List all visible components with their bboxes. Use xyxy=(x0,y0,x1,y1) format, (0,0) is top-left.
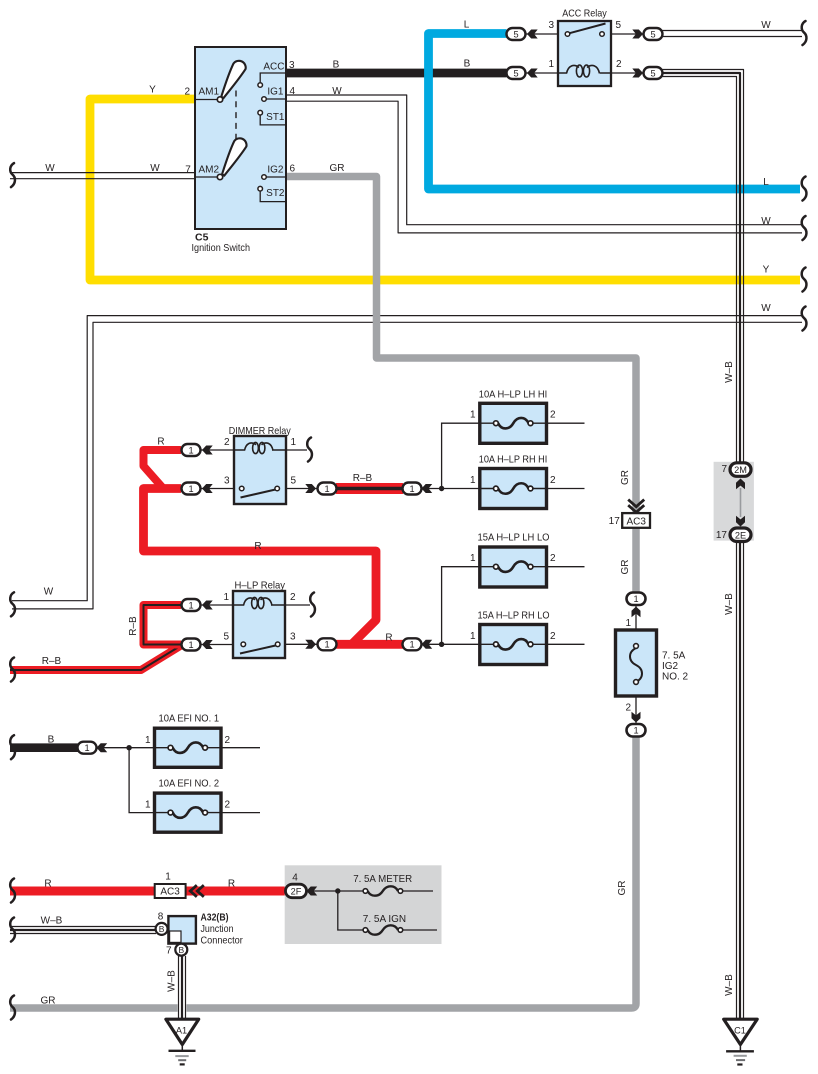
wire: ACC relay pin1 to oval xyxy=(525,72,558,74)
fuse 7.5A IG2 NO.2 xyxy=(616,630,657,696)
svg-text:R: R xyxy=(385,633,392,644)
wire W (left edge to AM2) xyxy=(10,173,195,179)
oval 1 (H-LP pin5) xyxy=(182,639,213,651)
shaded area meter/ign fuse block xyxy=(285,865,442,944)
svg-text:W: W xyxy=(44,587,54,598)
wire W-B (left edge to junction connector) xyxy=(10,927,156,934)
svg-text:1: 1 xyxy=(145,800,151,811)
H-LP relay coil xyxy=(233,597,285,608)
svg-text:Junction: Junction xyxy=(201,923,234,935)
DIMMER relay box xyxy=(234,436,286,504)
svg-text:R: R xyxy=(44,879,51,890)
svg-text:7: 7 xyxy=(185,164,191,175)
svg-text:W–B: W–B xyxy=(41,915,63,926)
oval 1 (H-LP pin3 left of pair) xyxy=(305,638,336,650)
svg-text:15A H–LP RH LO: 15A H–LP RH LO xyxy=(478,610,550,622)
wire: H-LP relay pin3 to oval pair xyxy=(285,643,317,645)
oval 5 (ACC relay pin5 right) xyxy=(632,28,662,40)
svg-text:1: 1 xyxy=(324,484,329,494)
oval 5 (ACC relay pin2 right) xyxy=(632,67,662,79)
svg-text:GR: GR xyxy=(41,996,56,1007)
break left B xyxy=(10,735,15,759)
wire: 10A EFI NO.2 pin2 stub xyxy=(221,812,260,814)
svg-text:W: W xyxy=(761,216,771,227)
ignition switch wiper AM1 xyxy=(217,61,245,102)
svg-text:AC3: AC3 xyxy=(160,887,180,898)
svg-text:2: 2 xyxy=(550,631,556,642)
oval 5 (ACC relay pin3 left) xyxy=(507,28,538,40)
svg-text:1: 1 xyxy=(223,592,229,603)
svg-text:2: 2 xyxy=(550,475,556,486)
wire R (dimmer relay upper branch) xyxy=(144,450,182,487)
wire: 10A H-LP RH HI fuse pin2 stub xyxy=(547,488,585,490)
svg-text:R–B: R–B xyxy=(128,616,139,636)
svg-text:1: 1 xyxy=(84,743,89,753)
oval 1 (H-LP pin1) xyxy=(182,599,213,611)
svg-text:W–B: W–B xyxy=(724,361,735,383)
svg-text:1: 1 xyxy=(291,437,297,448)
svg-text:1: 1 xyxy=(188,484,193,494)
wire W-B (2E down to C1 ground) xyxy=(737,541,744,1019)
svg-text:Y: Y xyxy=(763,265,770,276)
svg-text:W–B: W–B xyxy=(724,974,735,996)
svg-text:5: 5 xyxy=(650,29,655,39)
svg-text:ST2: ST2 xyxy=(266,188,285,199)
svg-text:1: 1 xyxy=(470,410,476,421)
svg-text:10A EFI NO. 2: 10A EFI NO. 2 xyxy=(159,777,220,789)
shaded area 2M/2E connector xyxy=(714,462,754,541)
svg-text:H–LP Relay: H–LP Relay xyxy=(235,580,286,592)
oval 1 (H-LP pin3 right of pair) xyxy=(403,638,433,650)
svg-text:5: 5 xyxy=(291,475,297,486)
oval 2F (meter) xyxy=(286,884,318,898)
wire R-B (between ovals at dimmer pin5) xyxy=(336,483,403,494)
wire: 15A H-LP RH LO pin2 stub xyxy=(547,643,585,645)
svg-text:GR: GR xyxy=(620,470,631,485)
svg-text:W: W xyxy=(761,303,771,314)
wire W (ACC relay pin5 to right edge) xyxy=(662,31,802,37)
svg-text:7. 5A METER: 7. 5A METER xyxy=(353,873,412,885)
junction connector A32(B) box xyxy=(168,916,196,944)
wire R (AC3 to 2F oval) xyxy=(186,887,287,896)
svg-text:7: 7 xyxy=(166,946,172,957)
wire GR (IG2 to down and across) xyxy=(286,177,636,593)
svg-text:A1: A1 xyxy=(176,1026,187,1036)
wire: IG2 fuse top oval to fuse xyxy=(635,604,637,646)
break left R-B xyxy=(10,658,15,682)
wire: 10A EFI NO.1 pin2 stub xyxy=(221,747,260,749)
fuse 15A H-LP RH LO xyxy=(480,625,547,665)
wire W (left edge loop up to right edge) xyxy=(12,316,802,609)
svg-text:5: 5 xyxy=(513,68,518,78)
fuse 7.5A IGN symbol xyxy=(363,925,403,934)
oval 2E xyxy=(730,516,751,542)
svg-text:W–B: W–B xyxy=(724,593,735,615)
connector AC3 (bottom, on R) xyxy=(155,884,204,898)
svg-text:10A H–LP LH HI: 10A H–LP LH HI xyxy=(479,389,548,401)
svg-text:2: 2 xyxy=(550,553,556,564)
svg-text:ST1: ST1 xyxy=(266,112,285,123)
svg-text:2: 2 xyxy=(225,800,231,811)
svg-text:17: 17 xyxy=(609,516,621,527)
ignition switch AM2 stub xyxy=(195,176,217,178)
break left W (loop) xyxy=(10,592,15,616)
break right L xyxy=(802,177,807,201)
svg-text:1: 1 xyxy=(633,594,638,604)
DIMMER relay coil xyxy=(234,442,286,453)
wire: 2F oval to meter junction xyxy=(306,890,338,892)
svg-text:2E: 2E xyxy=(735,530,746,540)
svg-text:DIMMER Relay: DIMMER Relay xyxy=(229,425,292,437)
break right W (IG1) xyxy=(802,216,807,240)
wire: oval pair to junction, H-LP LO fuses xyxy=(421,567,480,645)
svg-text:1: 1 xyxy=(188,445,193,455)
svg-text:10A EFI NO. 1: 10A EFI NO. 1 xyxy=(159,713,220,725)
break dimmer pin1 stub xyxy=(307,438,312,462)
fuse 10A H-LP LH HI xyxy=(480,403,547,443)
svg-text:6: 6 xyxy=(290,164,296,175)
svg-text:1: 1 xyxy=(324,640,329,650)
svg-text:1: 1 xyxy=(188,600,193,610)
svg-text:1: 1 xyxy=(470,475,476,486)
ACC relay switch xyxy=(570,24,606,34)
oval 1 (dimmer pin5 left of pair) xyxy=(305,483,336,495)
break left GR xyxy=(10,996,15,1020)
wire Y (yellow, AM1 to right edge) xyxy=(90,99,800,280)
redraw meter thin lines over shade xyxy=(306,891,437,930)
svg-text:B: B xyxy=(178,945,184,955)
oval 1 (IG2 fuse top) xyxy=(627,593,646,618)
oval 1 (dimmer pin3) xyxy=(182,483,213,495)
fuse 15A H-LP LH LO xyxy=(480,547,547,587)
oval 1 (dimmer pin2) xyxy=(182,444,213,456)
svg-text:GR: GR xyxy=(617,881,628,896)
svg-text:2M: 2M xyxy=(734,465,747,475)
svg-text:Connector: Connector xyxy=(201,934,244,946)
ignition switch ACC contact xyxy=(260,73,286,82)
svg-text:2: 2 xyxy=(225,735,231,746)
H-LP relay switch xyxy=(240,646,276,654)
svg-text:7. 5A: 7. 5A xyxy=(662,651,686,662)
svg-text:W: W xyxy=(45,163,55,174)
break right Y xyxy=(802,268,807,292)
wire W-B (junction connector down to A1 ground) xyxy=(178,956,187,1020)
wire: H-LP relay pin5 to oval xyxy=(200,644,233,646)
fuse 7.5A METER symbol xyxy=(363,886,403,895)
break left W (AM2) xyxy=(10,163,15,187)
svg-text:B: B xyxy=(48,735,55,746)
wire W-B (ACC relay pin2 down right side, upper) xyxy=(662,70,744,464)
svg-text:R: R xyxy=(228,879,235,890)
junction dot H-LP HI xyxy=(439,486,444,491)
ignition switch C5 box xyxy=(195,47,286,229)
svg-text:C1: C1 xyxy=(734,1026,746,1036)
svg-text:W–B: W–B xyxy=(167,970,178,992)
junction dot H-LP LO xyxy=(439,642,444,647)
svg-text:R–B: R–B xyxy=(353,473,373,484)
svg-text:W: W xyxy=(761,20,771,31)
wire GR (below IG2 fuse down, left to edge) xyxy=(10,736,636,1008)
wire: ACC relay pin2 to oval xyxy=(611,72,644,74)
fuse 10A EFI NO.1 xyxy=(155,728,222,767)
ignition switch IG1 contact xyxy=(266,98,286,100)
ignition switch dashed link xyxy=(235,91,237,142)
ground A1 xyxy=(166,1019,199,1064)
svg-text:IG2: IG2 xyxy=(662,661,679,672)
svg-text:10A H–LP RH HI: 10A H–LP RH HI xyxy=(479,454,548,466)
svg-text:3: 3 xyxy=(290,632,296,643)
svg-text:5: 5 xyxy=(223,632,229,643)
svg-text:GR: GR xyxy=(330,163,345,174)
svg-text:2: 2 xyxy=(224,437,230,448)
link 2M to 2E xyxy=(740,488,742,517)
svg-text:IG2: IG2 xyxy=(267,165,284,176)
svg-text:ACC Relay: ACC Relay xyxy=(562,8,607,20)
svg-text:2: 2 xyxy=(290,592,296,603)
svg-text:R: R xyxy=(254,541,261,552)
svg-text:3: 3 xyxy=(289,60,295,71)
wire: 15A H-LP LH LO pin2 stub xyxy=(547,566,585,568)
wire R-B (H-LP relay U loop) xyxy=(144,605,182,645)
wire L (blue, ACC relay pin3 to right edge) xyxy=(429,34,801,190)
svg-text:1: 1 xyxy=(145,735,151,746)
junction dot meter xyxy=(335,888,340,893)
svg-text:3: 3 xyxy=(224,475,230,486)
wire: H-LP relay pin2 stub xyxy=(285,604,310,606)
wire: dimmer pin2 to oval xyxy=(200,449,234,451)
H-LP relay box xyxy=(233,591,285,658)
wire: EFI oval to junction to fuse pins xyxy=(96,748,155,813)
oval 1 (EFI) xyxy=(78,742,108,754)
svg-text:1: 1 xyxy=(188,640,193,650)
wire: H-LP relay pin1 to oval xyxy=(200,604,233,606)
svg-text:R: R xyxy=(157,437,164,448)
wire B (left edge to EFI fuses) xyxy=(10,743,78,752)
svg-text:2: 2 xyxy=(625,703,631,714)
break H-LP pin2 stub xyxy=(310,593,315,617)
wire: dimmer pin1 stub xyxy=(286,449,307,451)
svg-text:L: L xyxy=(763,177,769,188)
wire: dimmer pin3 to oval xyxy=(200,488,234,490)
oval 1 (dimmer pin5 right of pair) xyxy=(403,483,433,495)
svg-text:4: 4 xyxy=(290,86,296,97)
connector circle B (pin 8) xyxy=(156,923,168,935)
svg-text:5: 5 xyxy=(650,68,655,78)
svg-text:2: 2 xyxy=(184,86,190,97)
wire R (dimmer trunk to H-LP row) xyxy=(144,489,377,644)
break left W-B xyxy=(10,918,15,942)
connector AC3 (mid, on GR) xyxy=(622,500,650,528)
ignition switch wiper AM2 xyxy=(217,138,246,179)
oval 1 (IG2 fuse bottom) xyxy=(627,712,646,737)
svg-text:B: B xyxy=(333,60,340,71)
svg-text:AM2: AM2 xyxy=(199,165,220,176)
svg-text:15A H–LP LH LO: 15A H–LP LH LO xyxy=(478,532,550,544)
oval 5 (ACC relay pin1 left) xyxy=(507,67,538,79)
ignition switch ST2 contact xyxy=(260,191,286,202)
DIMMER relay switch xyxy=(241,490,276,498)
svg-text:2: 2 xyxy=(550,410,556,421)
svg-text:R–B: R–B xyxy=(42,656,62,667)
svg-text:W: W xyxy=(332,86,342,97)
wire R-B (left edge diagonal into H-LP loop) xyxy=(10,646,181,671)
ignition switch ST1 contact xyxy=(260,115,286,125)
svg-text:1: 1 xyxy=(409,640,414,650)
ACC relay box xyxy=(558,21,611,86)
wire: ACC relay pin5 to oval xyxy=(611,33,644,35)
svg-text:4: 4 xyxy=(292,873,298,884)
wire: IGN fuse branch xyxy=(338,891,437,930)
svg-text:A32(B): A32(B) xyxy=(201,912,229,924)
ignition switch AM1 stub xyxy=(195,99,217,101)
svg-text:1: 1 xyxy=(633,726,638,736)
svg-text:1: 1 xyxy=(548,59,554,70)
svg-text:IG1: IG1 xyxy=(267,87,284,98)
svg-text:NO. 2: NO. 2 xyxy=(662,672,689,683)
svg-text:AC3: AC3 xyxy=(626,516,646,527)
wire R (between ovals at H-LP pin3) xyxy=(336,640,403,649)
wire: meter fuse line xyxy=(338,890,437,892)
wire W (IG1 dog-leg to right edge) xyxy=(286,95,802,233)
fuse 10A H-LP RH HI xyxy=(480,469,547,509)
break right W (loop) xyxy=(802,307,807,331)
connector circle B (pin 7) xyxy=(175,944,187,956)
svg-text:3: 3 xyxy=(548,20,554,31)
break right W (ACC relay) xyxy=(802,21,807,45)
svg-text:W: W xyxy=(150,163,160,174)
svg-text:B: B xyxy=(159,924,165,934)
svg-text:1: 1 xyxy=(470,631,476,642)
svg-text:5: 5 xyxy=(616,20,622,31)
ACC relay coil xyxy=(558,65,611,77)
svg-text:Ignition Switch: Ignition Switch xyxy=(192,242,251,254)
svg-text:1: 1 xyxy=(470,553,476,564)
svg-text:1: 1 xyxy=(165,872,171,883)
svg-text:1: 1 xyxy=(625,618,631,629)
wire: 10A H-LP LH HI fuse row xyxy=(480,422,585,424)
ground C1 xyxy=(724,1019,758,1064)
wire: oval pair to junction, H-LP HI fuses xyxy=(421,423,480,488)
svg-text:1: 1 xyxy=(409,484,414,494)
svg-text:GR: GR xyxy=(620,560,631,575)
ignition switch IG2 contact xyxy=(266,176,286,178)
svg-text:8: 8 xyxy=(158,912,164,923)
svg-text:Y: Y xyxy=(149,85,156,96)
svg-text:L: L xyxy=(464,20,470,31)
wire: dimmer pin5 to oval pair xyxy=(286,488,317,490)
wire B (ignition ACC to ACC relay) xyxy=(286,69,507,78)
svg-text:7: 7 xyxy=(721,464,727,475)
svg-text:B: B xyxy=(464,59,471,70)
break left R xyxy=(10,879,15,903)
svg-text:5: 5 xyxy=(513,29,518,39)
wire: ACC relay pin3 to oval xyxy=(525,33,558,35)
svg-text:2: 2 xyxy=(616,59,622,70)
oval 2M xyxy=(730,463,751,489)
wire: IG2 fuse bottom to oval xyxy=(635,682,637,724)
svg-text:7. 5A IGN: 7. 5A IGN xyxy=(363,913,406,925)
svg-text:ACC: ACC xyxy=(263,62,284,73)
fuse 10A EFI NO.2 xyxy=(155,793,222,832)
wire R (left edge to AC3 bottom) xyxy=(10,887,155,896)
junction dot EFI xyxy=(126,745,131,750)
svg-text:AM1: AM1 xyxy=(199,87,220,98)
svg-text:17: 17 xyxy=(716,530,728,541)
svg-text:2F: 2F xyxy=(291,887,302,897)
